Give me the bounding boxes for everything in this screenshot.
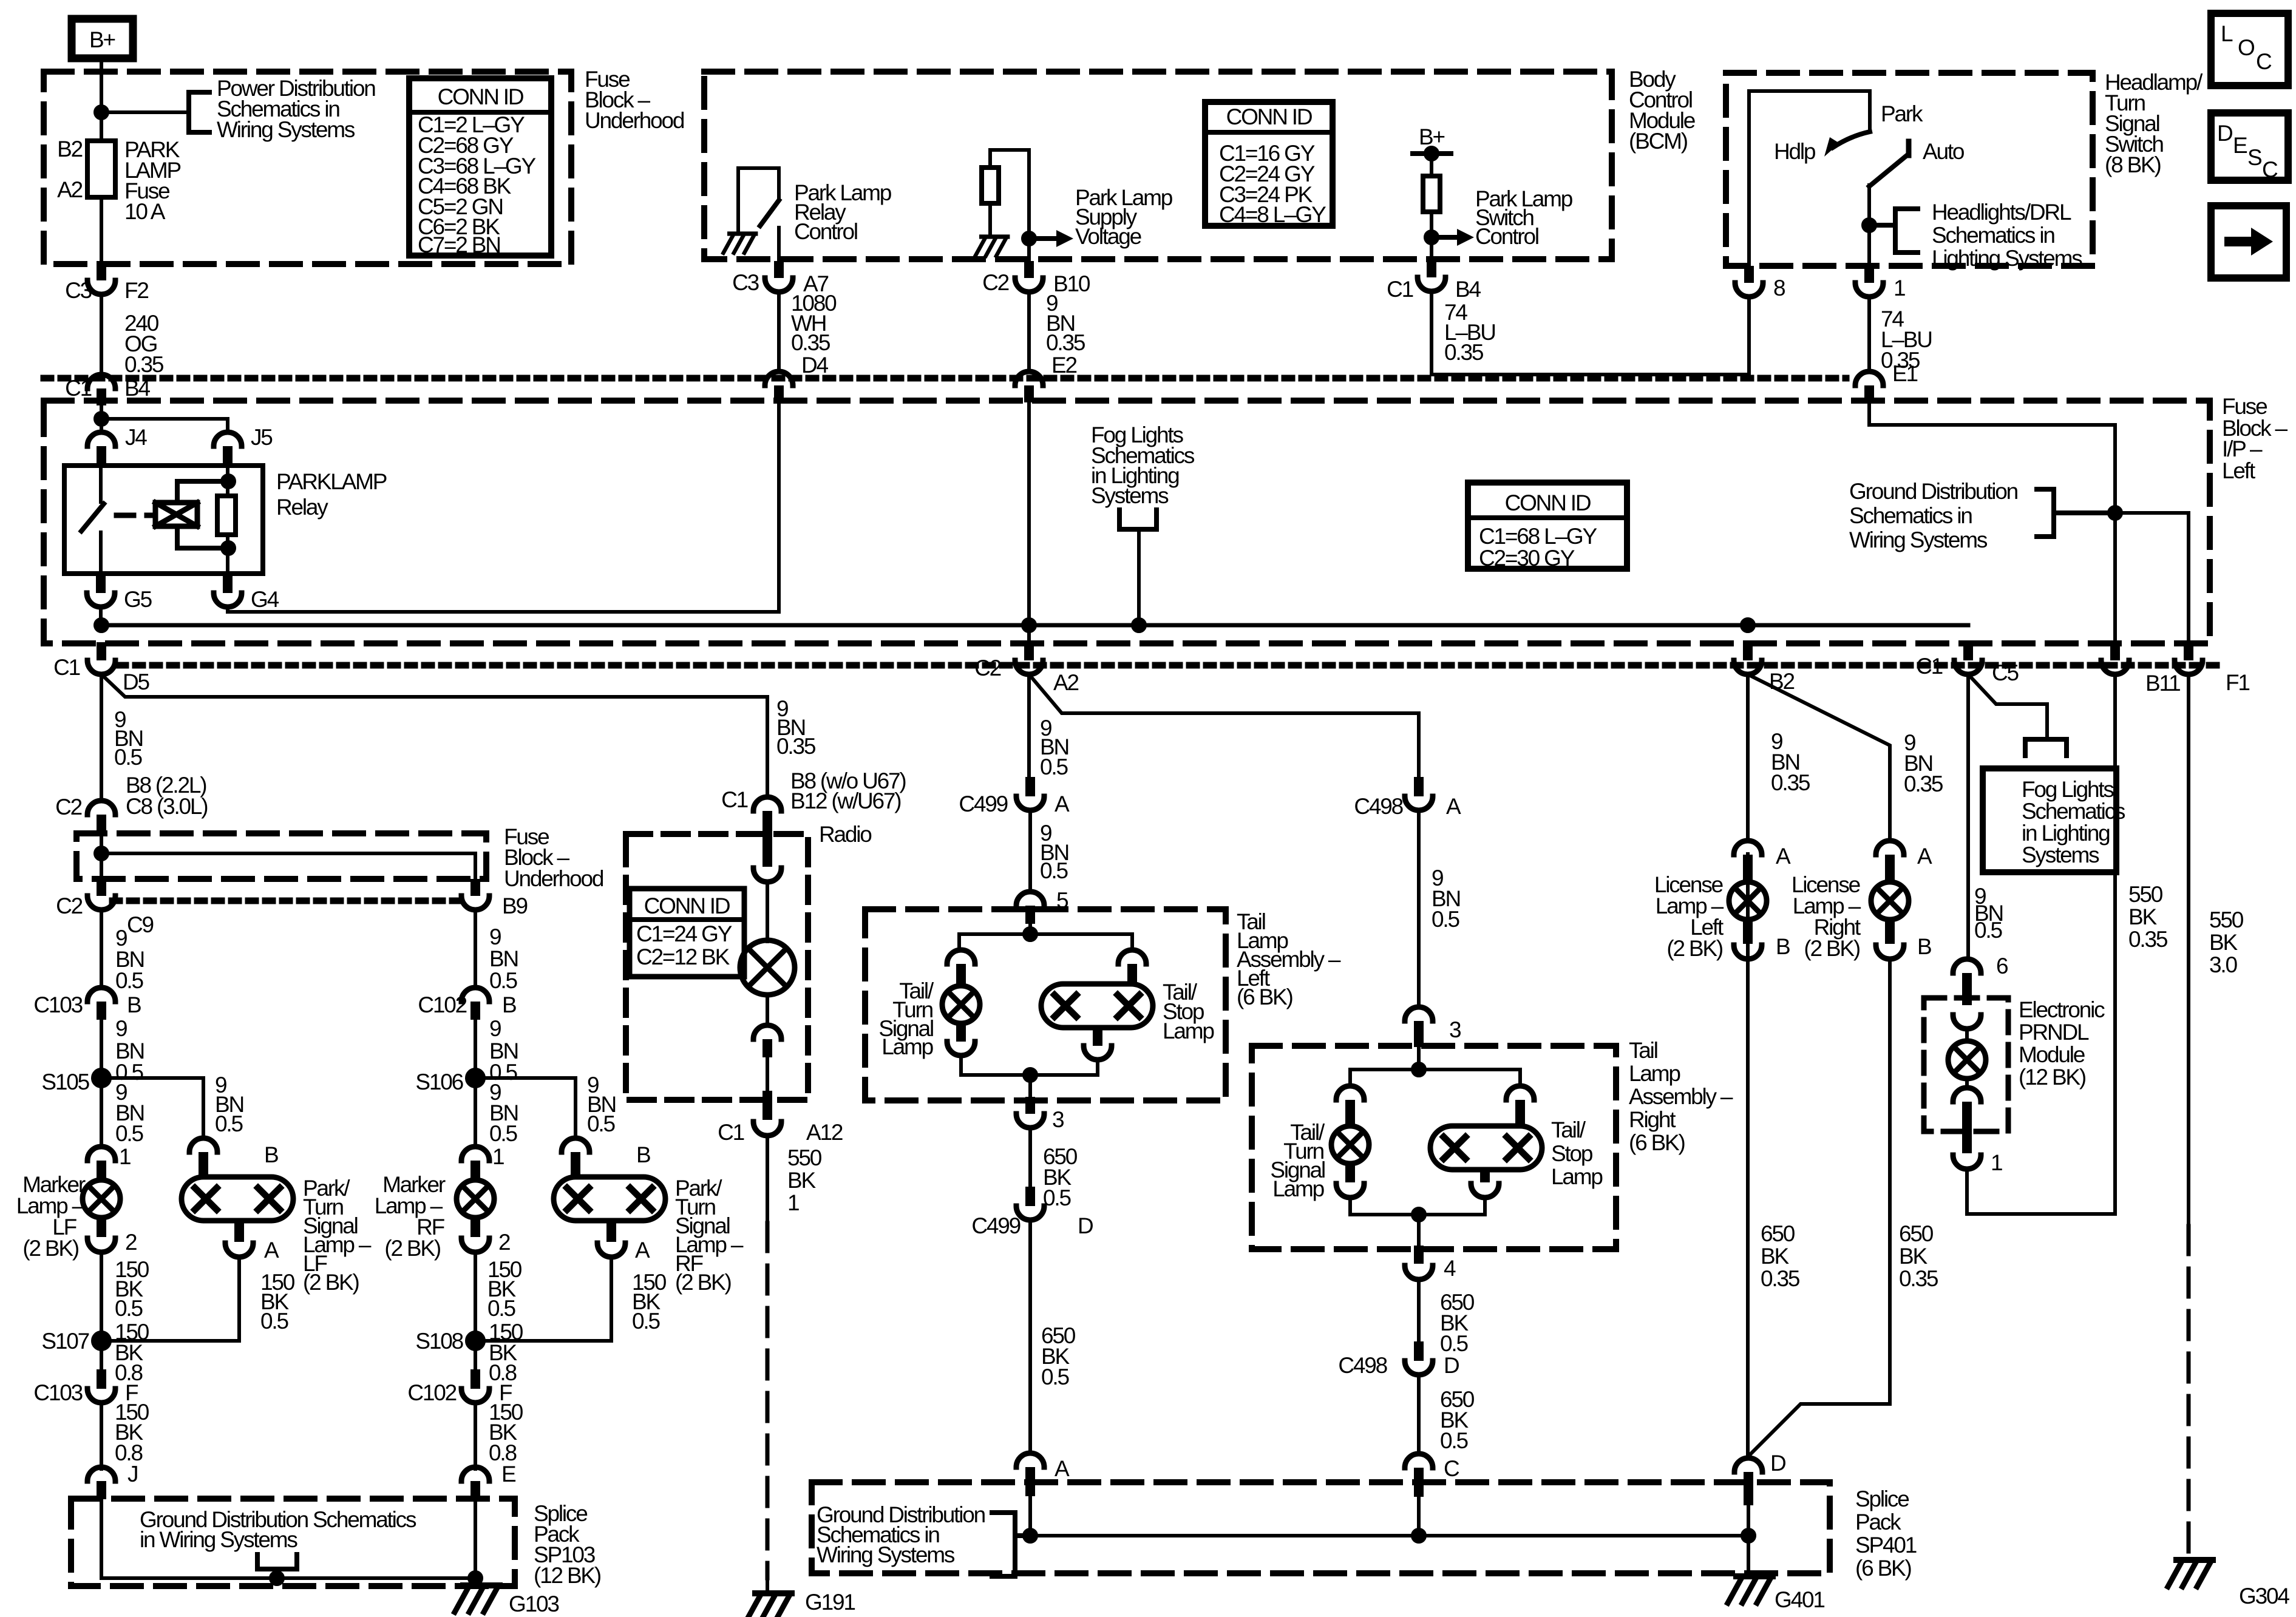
svg-text:0.35: 0.35 xyxy=(791,330,830,355)
svg-text:J5: J5 xyxy=(251,425,273,450)
connector 1 marker LF xyxy=(87,1147,115,1161)
svg-text:CONN ID: CONN ID xyxy=(644,893,730,918)
wire G5 to bus xyxy=(99,607,103,625)
bracket ground distribution wiring xyxy=(2037,489,2054,537)
svg-text:0.5: 0.5 xyxy=(1043,1185,1071,1210)
svg-text:A: A xyxy=(1446,794,1461,819)
fog lights bracket xyxy=(1119,510,1156,529)
connector B9 xyxy=(470,879,480,896)
connector 6 xyxy=(1953,959,1981,973)
svg-text:B: B xyxy=(636,1142,650,1167)
relay switch contact xyxy=(99,466,103,502)
connector C103/B xyxy=(87,988,115,1002)
svg-text:0.5: 0.5 xyxy=(115,1296,143,1321)
connector E xyxy=(461,1467,489,1481)
svg-text:Lamp: Lamp xyxy=(1551,1164,1603,1189)
svg-text:A12: A12 xyxy=(806,1120,843,1145)
svg-text:Electronic: Electronic xyxy=(2019,997,2105,1022)
fuse block underhood box 2 xyxy=(76,833,486,879)
svg-text:Headlights/DRL: Headlights/DRL xyxy=(1932,200,2071,225)
svg-text:G5: G5 xyxy=(124,587,152,612)
svg-text:C499: C499 xyxy=(959,792,1007,816)
svg-text:0.35: 0.35 xyxy=(1771,770,1810,795)
svg-text:O: O xyxy=(2238,35,2255,60)
svg-text:D: D xyxy=(1078,1213,1093,1238)
park lamp supply voltage resistor branch xyxy=(990,150,1029,262)
svg-text:A: A xyxy=(1055,792,1070,816)
svg-text:C1: C1 xyxy=(53,655,80,680)
marker lamp RF xyxy=(457,1180,494,1218)
svg-text:L: L xyxy=(2221,21,2233,46)
svg-text:CONN ID: CONN ID xyxy=(1226,104,1312,129)
marker RF bottom stub xyxy=(470,1218,480,1237)
svg-text:Tail: Tail xyxy=(1629,1038,1657,1063)
wire C1/B4 into box xyxy=(100,402,103,432)
svg-text:8: 8 xyxy=(1773,276,1785,300)
connector C1/A12 xyxy=(753,1122,781,1136)
svg-text:(BCM): (BCM) xyxy=(1629,129,1688,154)
Fuse Block IP Left dashed box xyxy=(44,401,2210,643)
connector B license right xyxy=(1876,945,1904,959)
switch feed line pin 8 to park contact xyxy=(1749,91,1870,266)
svg-text:Auto: Auto xyxy=(1923,139,1965,164)
svg-text:SP401: SP401 xyxy=(1855,1533,1917,1558)
wire to B9 xyxy=(101,853,475,879)
split line xyxy=(959,934,1132,951)
main parklamp bus xyxy=(101,623,1968,628)
svg-text:C2: C2 xyxy=(55,795,82,819)
svg-text:Wiring Systems: Wiring Systems xyxy=(1849,527,1988,552)
svg-text:D: D xyxy=(1770,1451,1785,1476)
relay coil box with X xyxy=(155,503,197,526)
junction dot to J5 xyxy=(95,413,107,425)
svg-text:(2 BK): (2 BK) xyxy=(384,1236,441,1261)
wire B2 to license left xyxy=(1746,674,1750,841)
svg-text:C3: C3 xyxy=(65,278,92,303)
svg-text:C1: C1 xyxy=(721,787,748,812)
connector C103/F xyxy=(97,1369,106,1389)
svg-text:G191: G191 xyxy=(805,1590,855,1615)
svg-text:650: 650 xyxy=(1761,1221,1795,1246)
svg-text:C4=8 L–GY: C4=8 L–GY xyxy=(1219,202,1326,227)
svg-text:C3: C3 xyxy=(732,270,759,295)
splice S108 xyxy=(467,1332,484,1349)
wire C1/D5 down xyxy=(100,674,103,801)
svg-text:S: S xyxy=(2247,145,2261,170)
svg-text:S107: S107 xyxy=(41,1329,89,1354)
wire out of box xyxy=(1028,1075,1032,1100)
radio illumination lamp xyxy=(740,940,795,995)
connector D4 xyxy=(765,371,793,385)
svg-text:C: C xyxy=(1444,1456,1459,1481)
svg-text:PRNDL: PRNDL xyxy=(2019,1020,2089,1045)
svg-text:10 A: 10 A xyxy=(124,199,166,224)
junction dot supply voltage xyxy=(1023,232,1035,245)
svg-text:Stop: Stop xyxy=(1551,1141,1593,1166)
svg-text:Schematics in: Schematics in xyxy=(1849,503,1972,528)
svg-text:C102: C102 xyxy=(418,992,466,1017)
right leg connector xyxy=(1118,950,1146,964)
arrow park lamp supply voltage xyxy=(1029,236,1056,241)
relay coil resistor xyxy=(217,496,236,535)
svg-text:A2: A2 xyxy=(1053,670,1078,695)
svg-text:9: 9 xyxy=(489,1016,501,1041)
connector C3/A7 stub xyxy=(774,261,784,278)
wire C9 down xyxy=(100,910,103,988)
svg-text:0.5: 0.5 xyxy=(1974,918,2002,943)
svg-text:0.5: 0.5 xyxy=(114,745,142,770)
connector E2 xyxy=(1015,371,1043,385)
svg-text:0.35: 0.35 xyxy=(1046,330,1085,355)
connector C499/D xyxy=(1025,1187,1035,1206)
svg-text:0.5: 0.5 xyxy=(1440,1331,1468,1356)
license lamp right xyxy=(1871,882,1909,920)
wire S107 to C103/F xyxy=(100,1341,103,1371)
svg-text:Underhood: Underhood xyxy=(504,866,603,891)
parklamp relay box xyxy=(64,466,263,574)
connector C1/C5 xyxy=(1963,642,1973,660)
connector J4 xyxy=(87,432,115,446)
svg-text:A: A xyxy=(1917,844,1932,869)
fog ref bracket xyxy=(2025,739,2067,756)
svg-text:0.35: 0.35 xyxy=(1444,340,1484,365)
B+ battery terminal box xyxy=(72,19,133,58)
svg-text:G401: G401 xyxy=(1775,1587,1824,1612)
svg-text:650: 650 xyxy=(1899,1221,1934,1246)
connector 3 right xyxy=(1405,1007,1433,1021)
svg-text:BK: BK xyxy=(2128,904,2157,929)
radio lamp lower wire xyxy=(766,995,769,1025)
svg-text:Lighting Systems: Lighting Systems xyxy=(1932,246,2082,271)
wire C to bus xyxy=(1417,1486,1421,1536)
svg-text:C103: C103 xyxy=(33,1380,82,1405)
wire 3 to C499/D xyxy=(1028,1128,1032,1188)
wire to S105 xyxy=(100,1020,103,1147)
PRNDL lamp xyxy=(1948,1041,1986,1079)
svg-text:0.35: 0.35 xyxy=(1904,771,1943,796)
connector C1/B4 xyxy=(87,375,115,388)
SP103 ground bus xyxy=(101,1576,475,1580)
arrow park lamp switch control xyxy=(1432,235,1457,240)
bottom ground bus xyxy=(1030,1534,1748,1537)
wire B10 to E2 xyxy=(1027,292,1031,371)
svg-text:C8 (3.0L): C8 (3.0L) xyxy=(126,794,208,819)
connector G5 xyxy=(96,574,106,593)
svg-text:1: 1 xyxy=(1991,1150,2002,1175)
wire inside box2 xyxy=(100,833,103,879)
junction dot headlights drl xyxy=(1863,219,1875,231)
wire auto to pin1 xyxy=(1867,185,1871,266)
connector A license left xyxy=(1734,841,1762,855)
wire F1 dashed part xyxy=(2187,1226,2191,1557)
wire 2 LF to S107 xyxy=(100,1252,103,1333)
svg-text:B2: B2 xyxy=(57,137,82,161)
radio CONN ID table xyxy=(630,889,744,977)
svg-text:C2: C2 xyxy=(974,656,1001,680)
wire D to bus xyxy=(1747,1491,1750,1576)
svg-text:C9: C9 xyxy=(127,912,154,937)
license lamp left xyxy=(1729,882,1767,920)
svg-text:Splice: Splice xyxy=(1855,1486,1909,1511)
wire E1 to B11 junction xyxy=(1869,402,2115,642)
svg-text:C2=12 BK: C2=12 BK xyxy=(636,944,730,969)
radio top connector xyxy=(763,835,772,867)
svg-text:J4: J4 xyxy=(125,425,147,450)
connector 4 xyxy=(1405,1266,1433,1280)
PRNDL bottom connector xyxy=(1953,1088,1981,1102)
wire C5 to 6 xyxy=(1966,956,1970,959)
wire blade to C3/A7 xyxy=(777,228,781,262)
svg-text:0.5: 0.5 xyxy=(489,968,517,993)
switch blade xyxy=(760,200,779,226)
wire to S106 xyxy=(474,1020,477,1147)
svg-text:Lamp: Lamp xyxy=(1272,1176,1324,1201)
svg-text:0.5: 0.5 xyxy=(115,968,143,993)
connector F1 xyxy=(2184,642,2193,660)
fuse PARK LAMP 10A xyxy=(87,141,115,197)
svg-text:0.5: 0.5 xyxy=(587,1111,615,1136)
splice S105 xyxy=(93,1070,110,1086)
svg-text:B10: B10 xyxy=(1053,271,1090,296)
svg-text:C1: C1 xyxy=(65,376,92,401)
radio bottom connector xyxy=(753,1025,781,1039)
branch S106 to B conn RF xyxy=(475,1078,576,1138)
svg-text:B: B xyxy=(1776,934,1790,959)
radio dashed box xyxy=(626,834,808,1100)
fog lights ref solid box xyxy=(1983,768,2116,872)
ground G103 xyxy=(455,1585,500,1612)
connector A bottom xyxy=(1016,1453,1044,1467)
wire E to ground bus xyxy=(474,1499,477,1578)
marker LF bottom stub xyxy=(97,1218,106,1237)
svg-text:B: B xyxy=(1917,934,1931,959)
ground G304 xyxy=(2168,1560,2213,1587)
tail lamp assembly right dashed box xyxy=(1252,1046,1616,1249)
svg-text:0.5: 0.5 xyxy=(1040,858,1068,883)
svg-text:C103: C103 xyxy=(33,992,82,1017)
connector C2/B10 stub xyxy=(1024,261,1034,278)
svg-text:0.35: 0.35 xyxy=(124,352,164,377)
svg-text:C1: C1 xyxy=(718,1120,744,1145)
svg-text:0.5: 0.5 xyxy=(215,1111,243,1136)
dotted connector row 2 xyxy=(118,662,2219,669)
svg-text:9: 9 xyxy=(115,1016,127,1041)
wire D5 branch to radio xyxy=(101,674,767,797)
resistor park lamp switch xyxy=(1423,176,1440,212)
svg-text:B: B xyxy=(264,1142,278,1167)
svg-text:B2: B2 xyxy=(1769,669,1794,694)
connector B parkturn LF xyxy=(189,1138,217,1152)
svg-text:1: 1 xyxy=(1894,276,1905,300)
ground below resistor xyxy=(976,237,1008,256)
wire C498/D to C xyxy=(1417,1375,1421,1454)
tail lamp assembly left dashed box xyxy=(865,909,1226,1100)
wire C5 to fog lights ref xyxy=(1968,674,2047,739)
svg-text:0.5: 0.5 xyxy=(1432,907,1459,932)
svg-text:Module: Module xyxy=(2019,1042,2085,1067)
svg-text:C1: C1 xyxy=(1916,654,1943,679)
svg-text:C498: C498 xyxy=(1354,794,1402,819)
wire B9 down xyxy=(474,910,477,988)
svg-text:C7=2 BN: C7=2 BN xyxy=(418,232,500,257)
wire A RF to S108 xyxy=(475,1257,611,1341)
svg-text:D: D xyxy=(2217,121,2232,146)
svg-text:B12 (w/U67): B12 (w/U67) xyxy=(790,788,901,813)
svg-text:Lamp: Lamp xyxy=(1163,1019,1214,1043)
join wires xyxy=(961,1056,1098,1075)
svg-text:C: C xyxy=(2256,49,2272,74)
svg-text:E1: E1 xyxy=(1892,361,1917,386)
wire pin1 to E1 xyxy=(1867,297,1871,371)
svg-text:Systems: Systems xyxy=(2022,842,2099,867)
connector 1 PRNDL xyxy=(1953,1155,1981,1169)
svg-text:(12 BK): (12 BK) xyxy=(2019,1065,2086,1090)
svg-text:(6 BK): (6 BK) xyxy=(1855,1556,1912,1581)
svg-text:I/P –: I/P – xyxy=(2222,436,2263,461)
svg-text:G4: G4 xyxy=(251,587,279,612)
connector B parkturn RF xyxy=(562,1138,589,1152)
svg-text:0.35: 0.35 xyxy=(776,734,816,759)
connector C2/A2 xyxy=(1024,642,1034,660)
connector C499/A xyxy=(1025,777,1035,796)
svg-text:D4: D4 xyxy=(801,353,829,378)
right leg xyxy=(1506,1086,1534,1100)
branch S105 to B conn LF xyxy=(101,1078,203,1138)
connector C1/B12 xyxy=(753,797,781,811)
bracket headlights drl xyxy=(1895,209,1918,253)
svg-text:1: 1 xyxy=(492,1144,504,1169)
svg-text:Voltage: Voltage xyxy=(1075,224,1141,249)
connector C3/F2 xyxy=(87,280,115,294)
wire C102/F to E xyxy=(474,1403,477,1469)
svg-text:BK: BK xyxy=(1761,1244,1789,1269)
svg-text:Lamp: Lamp xyxy=(881,1034,933,1059)
svg-text:6: 6 xyxy=(1996,954,2008,978)
splice S106 xyxy=(467,1070,484,1086)
svg-text:E: E xyxy=(2233,133,2247,158)
wire C498/A to 3 xyxy=(1417,810,1421,1007)
splice S107 xyxy=(93,1332,110,1349)
svg-text:(2 BK): (2 BK) xyxy=(1666,936,1723,961)
wire A LF to S107 xyxy=(101,1257,239,1341)
svg-text:0.5: 0.5 xyxy=(1440,1428,1468,1453)
connector C2/C8 xyxy=(87,801,115,815)
relay coil parallel loop xyxy=(177,481,228,548)
svg-text:F1: F1 xyxy=(2226,670,2249,695)
svg-text:J: J xyxy=(127,1462,137,1486)
svg-text:B11: B11 xyxy=(2145,671,2180,696)
park lamp relay control switch xyxy=(738,168,779,234)
pin 8 connector xyxy=(1744,266,1754,283)
tail/stop stadium right xyxy=(1430,1126,1542,1170)
svg-text:C: C xyxy=(2262,157,2278,182)
feed wire xyxy=(1417,1047,1421,1070)
svg-text:Radio: Radio xyxy=(819,822,872,847)
ground at relay control xyxy=(724,234,756,253)
svg-text:0.5: 0.5 xyxy=(115,1121,143,1146)
left leg connector xyxy=(947,950,975,964)
svg-text:D5: D5 xyxy=(123,670,150,694)
svg-text:B4: B4 xyxy=(124,376,150,401)
svg-text:C1: C1 xyxy=(1387,277,1413,302)
connector J5 xyxy=(214,432,242,446)
tail/stop stadium left xyxy=(1041,984,1153,1028)
svg-text:A: A xyxy=(264,1238,279,1263)
svg-text:1: 1 xyxy=(119,1144,131,1169)
svg-text:3: 3 xyxy=(1449,1017,1461,1042)
dotted connector row 1 xyxy=(44,375,1846,382)
svg-text:D: D xyxy=(1444,1353,1459,1378)
svg-text:Schematics in: Schematics in xyxy=(1932,223,2054,248)
svg-text:B: B xyxy=(502,992,516,1017)
connector C498/A xyxy=(1414,777,1424,796)
svg-text:A: A xyxy=(1055,1456,1070,1481)
connector G4 xyxy=(223,574,233,593)
connector J xyxy=(87,1467,115,1481)
svg-text:A: A xyxy=(635,1238,650,1263)
connector C bottom xyxy=(1405,1454,1433,1468)
svg-text:Pack: Pack xyxy=(1855,1510,1901,1534)
connector C2/C9 xyxy=(97,879,106,896)
wire G4 to D4 xyxy=(228,402,779,612)
svg-text:Underhood: Underhood xyxy=(585,108,684,133)
splice pack SP103 dashed box xyxy=(71,1499,515,1586)
svg-text:in Lighting: in Lighting xyxy=(2022,821,2110,846)
svg-text:3: 3 xyxy=(1052,1107,1064,1132)
tail/turn signal lamp right xyxy=(1331,1126,1369,1164)
svg-text:0.5: 0.5 xyxy=(260,1309,288,1334)
svg-text:Right: Right xyxy=(1629,1107,1676,1132)
svg-text:Relay: Relay xyxy=(276,495,328,520)
tail/turn signal lamp left xyxy=(942,986,980,1023)
fog lights stem xyxy=(1137,529,1141,625)
svg-text:B+: B+ xyxy=(1419,124,1444,149)
svg-text:G304: G304 xyxy=(2239,1584,2289,1609)
svg-text:9: 9 xyxy=(489,924,501,949)
E2 wire to C2/A2 xyxy=(1027,402,1031,643)
svg-text:2: 2 xyxy=(125,1230,137,1255)
svg-text:B9: B9 xyxy=(502,893,527,918)
connector C1/D5 xyxy=(97,642,106,660)
svg-text:2: 2 xyxy=(498,1230,510,1255)
svg-text:C2: C2 xyxy=(982,270,1009,295)
svg-text:(2 BK): (2 BK) xyxy=(22,1236,79,1261)
svg-text:(2 BK): (2 BK) xyxy=(675,1270,732,1295)
svg-text:A2: A2 xyxy=(57,177,82,202)
connector C498/D xyxy=(1414,1341,1424,1361)
stadium RF bottom pin A xyxy=(606,1221,616,1242)
svg-text:Tail/: Tail/ xyxy=(1551,1117,1586,1142)
svg-text:Systems: Systems xyxy=(1091,483,1169,508)
svg-text:S108: S108 xyxy=(415,1329,463,1354)
wire F1 solid part xyxy=(2187,674,2190,1226)
svg-text:C499: C499 xyxy=(971,1213,1020,1238)
connector pin 5 xyxy=(1016,892,1044,906)
svg-text:550: 550 xyxy=(2128,882,2163,907)
bracket ground distribution bottom xyxy=(992,1513,1015,1576)
svg-text:F2: F2 xyxy=(124,278,148,303)
resistor supply voltage xyxy=(982,168,999,203)
wire C1/B4 to pin 8 xyxy=(1432,291,1749,375)
connector A license right xyxy=(1876,841,1904,855)
junction dot ground distrib right xyxy=(2109,507,2121,519)
connector B11 xyxy=(2110,642,2120,660)
wire A into ground bus xyxy=(1028,1485,1032,1536)
svg-text:0.5: 0.5 xyxy=(1041,1364,1069,1389)
svg-text:4: 4 xyxy=(1444,1256,1456,1281)
connector B license left xyxy=(1734,945,1762,959)
svg-text:G103: G103 xyxy=(509,1592,559,1616)
